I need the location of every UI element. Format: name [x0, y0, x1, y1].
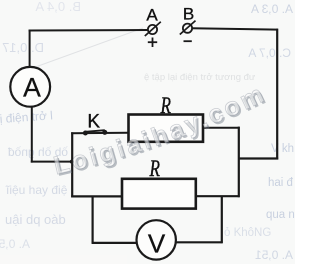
faint bleed-through text C. 0,7 A (mirrored, right)	[248, 46, 291, 60]
switch K contact dots	[83, 131, 88, 136]
svg-text:ỏ KhôNG: ỏ KhôNG	[224, 227, 271, 239]
svg-text:A: A	[146, 6, 158, 25]
wire: lower row left lead	[71, 195, 123, 197]
wire: right junction vertical	[238, 127, 240, 198]
wire: top right horizontal from B to corner	[192, 28, 278, 29]
wire: top left vertical down to ammeter	[29, 30, 31, 68]
wire: R2 right lead	[195, 195, 239, 197]
svg-text:V: V	[148, 228, 166, 258]
plus sign	[148, 38, 157, 48]
voltmeter V1 circle	[137, 220, 176, 259]
wire: voltmeter branch left vertical	[91, 196, 93, 244]
switch K wire	[71, 132, 129, 135]
svg-text:ệ tập lại điện trở tương đư: ệ tập lại điện trở tương đư	[144, 72, 256, 83]
wire: right vertical	[276, 29, 278, 160]
svg-text:B. 0,4 A: B. 0,4 A	[35, 0, 81, 14]
faint bleed-through text A. 0,3 A (mirrored, top right)	[251, 2, 293, 16]
terminal A circle with slash	[148, 25, 157, 34]
wire: top left horizontal	[29, 29, 148, 32]
ammeter A1 circle	[10, 67, 50, 107]
faint page text left: mirrored đồng hồ	[8, 145, 68, 159]
wire: ammeter bottom vertical	[31, 107, 33, 163]
resistor R2 (bottom) body	[122, 179, 196, 209]
faint bleed text bottom-right mirrored A 0,51	[255, 248, 293, 262]
svg-text:C. 0,7 A: C. 0,7 A	[248, 46, 291, 60]
svg-text:ĩiệu hay điệ: ĩiệu hay điệ	[5, 183, 68, 197]
svg-text:A. 0,5: A. 0,5	[0, 237, 30, 251]
svg-text:A. 0,51: A. 0,51	[255, 248, 293, 262]
wire: right horizontal into junction	[238, 157, 278, 159]
svg-text:qua n: qua n	[266, 209, 295, 221]
svg-text:R: R	[160, 93, 171, 119]
svg-text:A: A	[23, 73, 41, 103]
switch K lever	[85, 130, 104, 132]
faint bleed-through text D. 0,17 (mirrored, left)	[2, 40, 44, 55]
svg-text:B: B	[183, 5, 194, 24]
faint page text bottom-left corner: A 0,5	[0, 237, 30, 251]
faint crease line top-left	[30, 28, 143, 69]
svg-text:K: K	[87, 111, 100, 132]
svg-text:uậi dq oàb: uậi dq oàb	[5, 212, 66, 227]
terminal B circle with slash	[183, 24, 192, 33]
wire: voltmeter bottom right horizontal	[176, 241, 223, 243]
minus sign	[184, 40, 192, 42]
wire: voltmeter bottom left horizontal	[92, 242, 137, 244]
wire: ammeter row horizontal	[31, 161, 73, 163]
wire: voltmeter branch right vertical	[221, 196, 223, 243]
wire: left junction vertical	[71, 132, 73, 197]
resistor R1 (top) body	[129, 115, 204, 142]
wire: R1 right lead	[203, 127, 240, 129]
junction dot at left junction	[70, 160, 74, 164]
svg-text:hai đ: hai đ	[268, 177, 294, 189]
svg-text:V kh: V kh	[271, 143, 294, 155]
svg-text:R: R	[149, 156, 160, 182]
faint bleed-through text top-left corner	[35, 0, 81, 14]
svg-text:A. 0,3 A: A. 0,3 A	[251, 2, 293, 16]
svg-text:D. 0,17: D. 0,17	[2, 40, 44, 55]
